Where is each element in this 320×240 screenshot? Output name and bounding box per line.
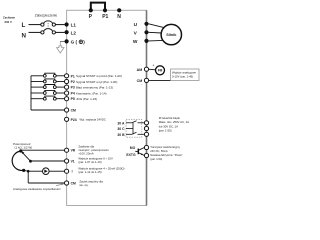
svg-text:L1: L1 [71,23,77,28]
svg-text:Kasowanie, (Par. 1-14): Kasowanie, (Par. 1-14) [76,91,107,95]
svg-text:CM: CM [71,181,76,185]
svg-text:G (: G ( [71,40,78,45]
svg-text:Silnik: Silnik [166,33,177,37]
svg-text:L2: L2 [71,30,77,35]
svg-text:JOG (Par. 1-15): JOG (Par. 1-15) [76,97,97,101]
svg-text:Tranzystor wielofunkcyjny: Tranzystor wielofunkcyjny [150,145,180,149]
svg-text:(1 kΩ, 1/2 W): (1 kΩ, 1/2 W) [15,145,33,149]
svg-text:Sygnał START w przód (Par. 1-0: Sygnał START w przód (Par. 1-00) [76,74,122,78]
svg-text:VR: VR [71,149,76,153]
svg-text:Wyj. napięcia 24VDC: Wyj. napięcia 24VDC [80,118,106,122]
svg-text:L: L [22,22,26,29]
svg-text:FM: FM [158,69,163,73]
svg-text:24V DC, 50mA: 24V DC, 50mA [150,149,168,153]
svg-text:Analogowe zadawanie częstotliw: Analogowe zadawanie częstotliwości [13,187,61,191]
svg-text:+10V, 20mA: +10V, 20mA [78,151,93,155]
svg-text:30 C: 30 C [117,127,125,131]
svg-text:MO: MO [130,146,136,150]
svg-text:30 A: 30 A [117,121,125,125]
svg-text:P5: P5 [71,97,75,101]
svg-text:P24: P24 [71,118,77,122]
svg-text:EXTG: EXTG [126,153,136,157]
svg-text:P4: P4 [71,92,75,96]
svg-text:P2: P2 [71,80,75,84]
svg-text:Zabezpieczenie: Zabezpieczenie [35,13,58,17]
svg-text:30 B: 30 B [117,133,125,137]
svg-text:(par. 1-55): (par. 1-55) [159,129,172,133]
svg-text:Zasilanie: Zasilanie [3,16,15,20]
svg-text:Błąd zewnętrzny (Par. 1-13): Błąd zewnętrzny (Par. 1-13) [76,85,113,89]
svg-text:Nastawa fabryczna: "Praca": Nastawa fabryczna: "Praca" [150,153,182,157]
svg-text:I: I [72,170,73,174]
svg-text:(par. 1-54): (par. 1-54) [150,157,162,161]
svg-text:P1: P1 [71,74,75,78]
svg-text:CM: CM [71,109,76,113]
svg-text:Sygnał START w tył (Par. 1-00): Sygnał START w tył (Par. 1-00) [76,80,117,84]
svg-text:U: U [134,22,138,28]
svg-text:P3: P3 [71,86,75,90]
svg-text:N: N [22,33,27,40]
svg-text:W: W [133,39,138,45]
svg-text:V1: V1 [71,159,75,163]
svg-text:AM: AM [137,68,143,72]
svg-text:we. wy.: we. wy. [79,183,88,187]
svg-text:0-10V (par. 1-45): 0-10V (par. 1-45) [172,75,193,79]
svg-text:N: N [117,14,121,20]
svg-text:P1: P1 [102,14,108,20]
svg-text:-: - [141,83,142,87]
svg-text:(par. 1-12 do 1-15): (par. 1-12 do 1-15) [78,170,101,174]
svg-text:(par. 1-07 do 1-10): (par. 1-07 do 1-10) [78,160,101,164]
svg-text:230 V: 230 V [5,20,12,24]
